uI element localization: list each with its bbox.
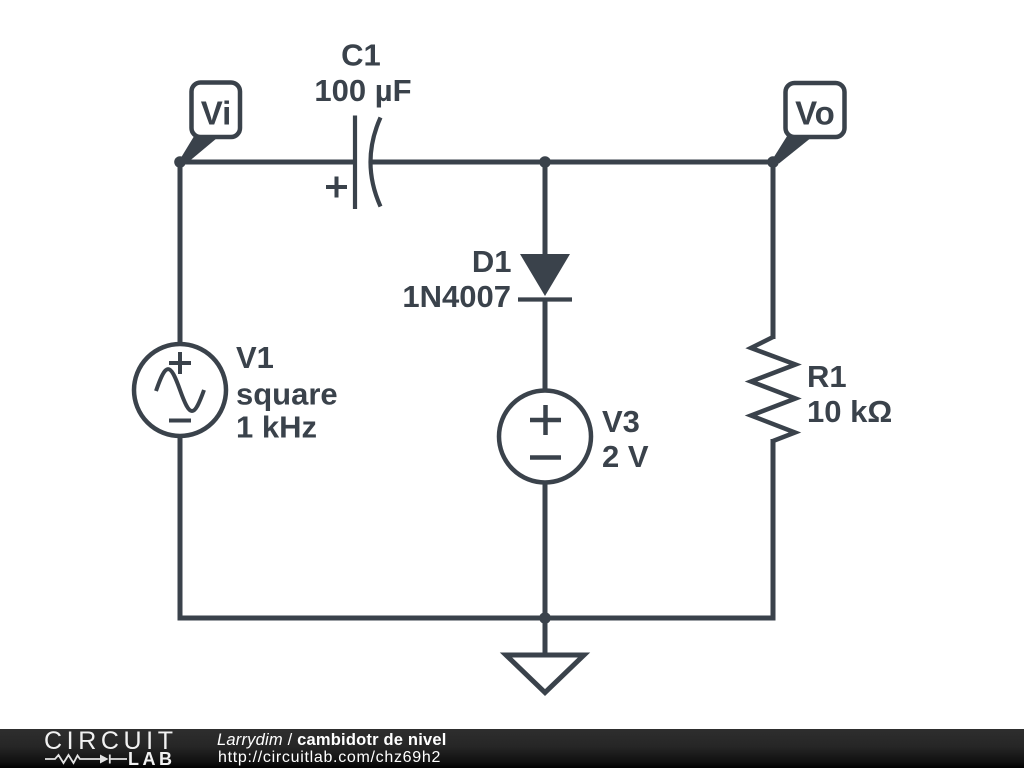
CircuitLab logo wordmark CIRCUIT [44,732,178,751]
footer url [218,750,441,766]
wire bottom rail [178,616,774,621]
label V3 designator [602,404,640,439]
label R1 designator [807,359,847,394]
flag Vo [773,83,845,164]
wire right branch: R1 down to bottom rail [771,439,776,621]
CircuitLab logo wordmark LAB [128,752,176,766]
wire middle branch: top junction to diode D1 [543,162,548,258]
resistor R1 [751,337,796,441]
label C1 value 100 µF [314,73,411,108]
svg-text:V3: V3 [602,404,640,439]
wire middle branch: D1 to V3 [543,299,548,392]
junction node top middle [539,156,551,168]
svg-text:V1: V1 [236,340,274,375]
svg-text:R1: R1 [807,359,847,394]
label D1 designator [472,244,512,279]
wire right branch: Vo node down to R1 [771,162,776,339]
svg-text:C1: C1 [341,38,381,73]
wire top-left: Vi node to C1 [180,160,355,165]
svg-text:1N4007: 1N4007 [402,279,511,314]
label C1 designator [341,38,381,73]
svg-text:Vi: Vi [201,95,232,132]
footer bar [0,729,1024,768]
diode D1 [518,254,572,300]
ground [506,618,584,693]
label D1 value 1N4007 [402,279,511,314]
wire left branch: Vi node down to V1 [178,162,183,346]
label V1 designator [236,340,274,375]
wire left branch: V1 down to bottom rail [178,434,183,621]
label R1 value 10 kΩ [807,394,892,429]
svg-text:2 V: 2 V [602,439,649,474]
svg-text:10 kΩ: 10 kΩ [807,394,892,429]
voltage source V1 (sine symbol) [134,344,226,436]
node Vi junction dot [174,156,186,168]
wire top-right: C1 to Vo node [371,160,773,165]
footer title: Larrydim / cambidotr de nivel [217,732,447,748]
svg-text:square: square [236,377,338,412]
junction node bottom middle [539,612,551,624]
CircuitLab logo resistor-diode squiggle [44,752,128,766]
label V1 value square 1 kHz [236,377,338,445]
svg-text:1 kHz: 1 kHz [236,410,317,445]
label V3 value 2 V [602,439,649,474]
capacitor C1 (polarized) [326,116,381,210]
voltage source V3 (battery symbol) [499,391,591,483]
svg-text:Vo: Vo [795,95,835,132]
flag Vi [181,83,241,164]
svg-text:D1: D1 [472,244,512,279]
svg-text:100 µF: 100 µF [314,73,411,108]
wire middle branch: V3 to bottom rail [543,481,548,618]
node Vo junction dot [767,156,779,168]
